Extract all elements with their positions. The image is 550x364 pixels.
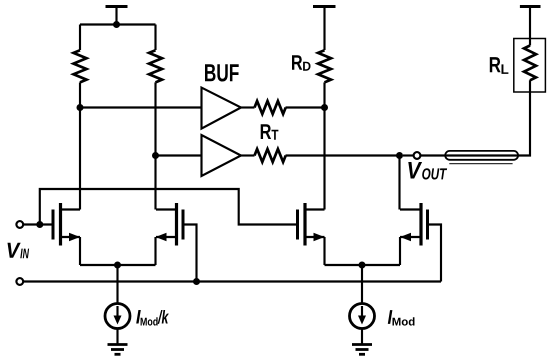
terminal VIN open circle xyxy=(16,221,23,228)
arrow M3 source xyxy=(314,233,325,241)
wire M1 source down xyxy=(79,237,81,265)
wire M3 source down xyxy=(323,237,325,265)
wire VOUT terminal through t-line to RL xyxy=(421,92,530,156)
node VOUT xyxy=(396,152,403,159)
op-amp buffer U2 xyxy=(202,135,242,176)
node M2 gate on rail xyxy=(193,278,200,285)
supply bar VDD right xyxy=(520,7,541,39)
terminal VOUT open circle xyxy=(403,152,420,159)
transmission line TL1 body xyxy=(445,151,518,160)
wire buffer2 input xyxy=(156,154,202,156)
wire M2 gate xyxy=(183,225,197,282)
wire tail1 to current source xyxy=(116,265,118,304)
wire VIN to M1 gate xyxy=(24,223,54,225)
label VIN xyxy=(8,243,30,258)
label IMod xyxy=(388,310,415,326)
label BUF xyxy=(205,64,239,81)
resistor RT xyxy=(255,149,286,162)
arrow M4 source xyxy=(400,233,411,241)
transistor M2 (diff pair 1 right) xyxy=(156,203,183,246)
wire tail 1 xyxy=(80,264,156,266)
arrow M1 source xyxy=(69,233,80,241)
wire VIN to M3 gate (over the top) xyxy=(40,189,298,225)
node tail 1 xyxy=(114,262,121,269)
wire tail 2 xyxy=(325,264,401,266)
transistor M3 (diff pair 2 left) xyxy=(298,203,325,246)
supply bar VDD middle xyxy=(313,7,336,51)
label IMod/k xyxy=(136,310,169,326)
wire node C down to M3 drain xyxy=(323,108,325,210)
resistor RL (boxed) xyxy=(514,39,546,93)
wire VOUT down to M4 drain xyxy=(398,156,400,210)
wire M2 source down xyxy=(154,237,156,265)
supply bar VDD left xyxy=(106,7,128,25)
wire M4 gate xyxy=(428,225,442,282)
wire current source 2 to ground xyxy=(361,329,363,345)
wire left drain vertical xyxy=(79,108,81,210)
wire bottom rail xyxy=(24,280,442,282)
node B (right drain / buffer2 input) xyxy=(152,152,159,159)
terminal reference open circle xyxy=(16,278,23,285)
node tail 2 xyxy=(359,262,366,269)
wire supply rail left xyxy=(80,23,156,25)
wire buffer1 input xyxy=(80,106,202,108)
node supply-left junction xyxy=(113,21,120,28)
transistor M4 (diff pair 2 right) xyxy=(400,203,428,246)
resistor buffer1 series xyxy=(255,101,286,114)
wire tail2 to current source xyxy=(361,265,363,304)
wire buffer1 resistor to node C xyxy=(286,106,325,108)
wire RT to VOUT node xyxy=(286,154,400,156)
wire M4 source down xyxy=(399,237,401,265)
ground 1 xyxy=(108,345,128,355)
transmission line TL1 ground line xyxy=(449,163,512,165)
wire current source 1 to ground xyxy=(116,329,118,345)
label RT xyxy=(261,124,279,140)
resistor right-load (drain load of M2) xyxy=(149,25,162,156)
node A (left drain / buffer1 input) xyxy=(77,104,84,111)
label VOUT xyxy=(408,162,447,180)
wire buffer2 output xyxy=(241,154,255,156)
resistor RD xyxy=(318,50,331,107)
current source IMod xyxy=(350,304,375,329)
label RD xyxy=(292,55,311,70)
ground 2 xyxy=(352,345,372,355)
node VIN junction xyxy=(36,221,43,228)
transistor M1 (diff pair 1 left) xyxy=(53,203,80,246)
wire buffer1 output xyxy=(241,106,255,108)
op-amp buffer U1 xyxy=(202,88,242,129)
wire right drain vertical xyxy=(154,156,156,210)
label RL xyxy=(490,57,509,74)
arrow M2 source xyxy=(156,233,167,241)
resistor left-load (drain load of M1) xyxy=(74,25,87,108)
current source IMod/k xyxy=(105,304,130,329)
node C (RD / buffer1 out junction) xyxy=(321,104,328,111)
